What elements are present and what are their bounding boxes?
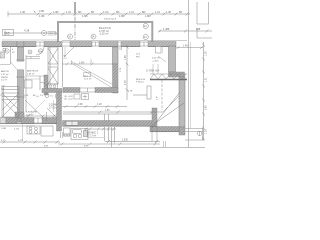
left margin horizontal line (0, 64, 11, 66)
middle room left wall line (62, 47, 64, 87)
left edge tick marks (0, 57, 3, 95)
entry door arc (36, 47, 44, 55)
door frame verticals kitchen (105, 114, 109, 141)
svg-text:88¹: 88¹ (116, 11, 120, 14)
top dimension line (8, 12, 190, 17)
svg-text:2.885: 2.885 (1, 128, 7, 130)
leader diagonals middle room (72, 62, 113, 85)
bathroom left hatched wall (44, 75, 48, 95)
fixtures below middle wall (74, 94, 89, 100)
stair cross box left (2, 87, 19, 118)
svg-text:5.04 OK: 5.04 OK (152, 58, 160, 60)
svg-text:1.485: 1.485 (163, 28, 170, 31)
counter box (41, 126, 53, 136)
right wall bottom hatched block (179, 127, 185, 135)
svg-text:88¹: 88¹ (142, 11, 146, 14)
middle bottom window (80, 88, 95, 92)
svg-text:G.-ROK +6,4: G.-ROK +6,4 (146, 71, 160, 73)
svg-text:88¹: 88¹ (78, 11, 82, 14)
room number box 965 (3, 30, 14, 36)
interior dim line 2 (62, 105, 127, 108)
svg-text:+2.625: +2.625 (152, 60, 159, 62)
svg-text:1.48: 1.48 (125, 55, 127, 60)
marker circles below wall (3, 49, 43, 55)
shaft with cross bracing (48, 47, 58, 84)
room right grey wall upper (113, 47, 119, 64)
bottom wall band middle (63, 121, 157, 127)
svg-text:1.01¹: 1.01¹ (103, 11, 109, 14)
bottom small specks (44, 146, 89, 148)
door frame second line (64, 47, 66, 57)
bottom dim line 3 (58, 143, 160, 146)
svg-text:1.01: 1.01 (66, 11, 71, 14)
BRH text (136, 79, 146, 84)
right band dark edge (150, 131, 179, 133)
svg-text:935: 935 (196, 28, 201, 31)
svg-text:1.53: 1.53 (105, 110, 110, 112)
svg-text:3.85 m²: 3.85 m² (27, 72, 35, 75)
svg-text:F 90/2.0: F 90/2.0 (136, 82, 144, 84)
svg-text:10.5 m²: 10.5 m² (26, 113, 34, 116)
balcony label BALKON (99, 27, 111, 35)
label rows above truss (152, 58, 160, 63)
partition dim ticks (99, 111, 154, 114)
vertical wall at kitchen right (152, 108, 157, 126)
svg-text:1.18: 1.18 (97, 104, 102, 106)
partition extension right (150, 111, 163, 113)
right dimension line (158, 30, 212, 33)
right building wall grey lower (179, 77, 185, 127)
hatched corner left margin (0, 52, 5, 58)
door frame dashes lower-left (46, 112, 48, 121)
svg-text:1.38: 1.38 (206, 129, 208, 134)
corridor partition stub (26, 57, 40, 59)
svg-text:1.38¹: 1.38¹ (53, 11, 59, 14)
left wall bottom hatched block (15, 112, 24, 122)
svg-text:1.88¹: 1.88¹ (145, 15, 151, 18)
svg-text:1.38: 1.38 (166, 11, 171, 14)
kitchen room label (87, 133, 99, 138)
kitchen upper line (0, 125, 35, 127)
lower room label 5.ZIMMER (49, 105, 60, 110)
upper wall inner face line (2, 39, 57, 41)
room right hatched wall lower (113, 64, 119, 93)
circle marker terrace (197, 131, 201, 135)
svg-text:1.01: 1.01 (129, 11, 134, 14)
room label ABSTELLR (27, 70, 39, 76)
svg-text:4.175: 4.175 (14, 129, 20, 131)
door opening in left wall (17, 61, 24, 70)
svg-text:1.88¹: 1.88¹ (82, 15, 88, 18)
truss bottom chord thick (150, 79, 187, 81)
circle markers 14 (68, 23, 149, 39)
small texts below middle wall (64, 96, 74, 101)
right vertical dimension line (202, 42, 205, 141)
svg-text:1.38: 1.38 (206, 51, 208, 56)
dashes below stair (164, 141, 166, 147)
second dimension line left (5, 31, 59, 36)
centre line dashed (74, 2, 76, 40)
bottom band dark edges (0, 124, 157, 127)
top dimension texts (20, 10, 182, 18)
circle marker 4 (42, 31, 56, 36)
column rect in stair area (147, 86, 151, 99)
marker circles below wc (45, 94, 59, 99)
band bottom edges (2, 46, 176, 48)
dim extension vertical (22, 124, 24, 141)
bottom dim line (0, 141, 60, 144)
svg-text:965: 965 (4, 31, 10, 35)
svg-text:1.0¹: 1.0¹ (156, 96, 159, 100)
svg-text:12.5 m²: 12.5 m² (84, 77, 92, 80)
right building wall grey upper (169, 46, 176, 72)
left wall texture lines (19, 47, 21, 112)
bottom dim line 2 (105, 140, 160, 143)
shelf line (133, 94, 150, 96)
svg-text:4.175: 4.175 (18, 140, 24, 142)
truss railing top chord (150, 74, 187, 79)
middle room bottom wall hatched (63, 88, 80, 93)
top-right neighbour balcony U (197, 2, 212, 38)
svg-text:3.88: 3.88 (39, 10, 44, 13)
left vertical grey wall (18, 47, 24, 117)
left margin room label (1, 70, 9, 76)
svg-text:2.88: 2.88 (206, 105, 208, 110)
partition double line (63, 111, 155, 113)
tick pair below band left (120, 47, 122, 51)
svg-text:2.78: 2.78 (125, 80, 127, 85)
svg-text:1.0¹: 1.0¹ (1, 85, 5, 88)
vertical hatched wall mid-bottom (57, 92, 62, 131)
long bottom line (0, 147, 205, 149)
door diagonal top middle room (64, 47, 74, 57)
interior vertical dimension line (126, 45, 129, 100)
top dimension ticks (37, 13, 189, 16)
bottom wall band left (0, 118, 57, 124)
middle room label (84, 73, 92, 81)
thin vertical lines right (188, 0, 190, 148)
room dim line y64 (62, 60, 113, 66)
middle room bottom wall hatched b (95, 88, 118, 93)
left margin extra texts (1, 77, 9, 91)
door arc left room (40, 82, 48, 90)
lower-left door diagonals (25, 100, 46, 120)
svg-text:UK +1.22: UK +1.22 (64, 99, 74, 101)
right dim line 2 (176, 46, 203, 49)
left wall joint ticks (16, 60, 25, 97)
stair diagonal arrows (152, 92, 181, 128)
svg-text:1.45¹: 1.45¹ (79, 61, 85, 64)
window gap in middle band (66, 121, 78, 125)
sink counter (71, 129, 88, 140)
svg-text:2.38: 2.38 (78, 104, 83, 106)
svg-text:WOHNZ. 1: WOHNZ. 1 (87, 133, 99, 135)
window segments in top wall (36, 42, 148, 46)
dishwasher box (64, 128, 71, 136)
svg-text:ABST.R: ABST.R (1, 70, 9, 73)
stove (27, 126, 40, 134)
left wall inner line (25, 55, 27, 112)
right wall corner hatched block (169, 72, 185, 77)
kueche dim line (24, 115, 57, 118)
bathroom small rect (25, 80, 33, 88)
svg-text:1.38: 1.38 (20, 11, 25, 14)
svg-text:4.38: 4.38 (24, 29, 30, 33)
svg-text:1.38¹: 1.38¹ (39, 15, 45, 18)
svg-text:27.17 m²: 27.17 m² (87, 134, 96, 137)
svg-text:2.0 m²: 2.0 m² (1, 79, 7, 82)
main top wall hatched segments (2, 42, 176, 47)
bottom wall band right offset (150, 127, 179, 132)
kitchen dim row (84, 128, 116, 131)
room label K.1 (26, 112, 37, 117)
door frame vertical (39, 76, 41, 90)
svg-text:1.88¹: 1.88¹ (119, 15, 125, 18)
label cluster below band (136, 54, 141, 59)
corridor line left (10, 47, 12, 64)
svg-text:1.01: 1.01 (206, 77, 208, 82)
svg-text:1.535: 1.535 (122, 140, 128, 142)
terrace edge double lines right (185, 128, 204, 140)
svg-text:Isokorb Typ K: Isokorb Typ K (104, 19, 117, 21)
svg-text:2.0x1.1: 2.0x1.1 (48, 33, 56, 35)
dashed line with arrow (161, 80, 163, 110)
wc fixtures (48, 84, 58, 89)
left margin small texts (1, 128, 24, 142)
leader verticals right of kitchen (112, 127, 115, 147)
wall edge extensions below band (152, 126, 157, 141)
svg-text:1.40¹: 1.40¹ (183, 44, 189, 47)
balcony outline (58, 22, 152, 44)
small centered text above (36, 96, 40, 98)
svg-text:1.01: 1.01 (155, 11, 160, 14)
svg-text:5.37 m²: 5.37 m² (1, 73, 9, 76)
duct box below band (156, 47, 162, 54)
hatched wall below wc (42, 89, 62, 93)
bathroom texts row (24, 95, 44, 97)
svg-text:ABSTELLR.: ABSTELLR. (27, 70, 39, 73)
svg-text:-1.32 m²: -1.32 m² (99, 32, 108, 35)
